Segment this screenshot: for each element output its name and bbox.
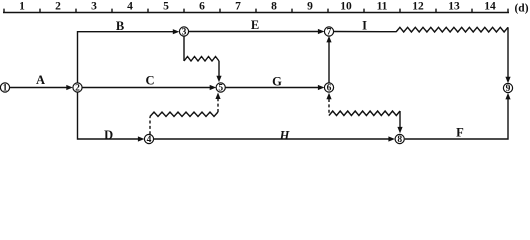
svg-text:1: 1 [19,1,25,13]
dummy 6->8 arrow into node 8 top [399,111,401,129]
svg-text:7: 7 [235,1,241,13]
time-scale ruler baseline [3,12,509,14]
dummy 6->8 free-float wavy line [329,111,400,116]
svg-text:5: 5 [163,1,169,13]
svg-text:D: D [104,128,113,142]
activity G arrow 5->6 [225,87,320,89]
activity I solid segment from node 7 [334,31,396,33]
dummy at node 6 dashed arrow pointing up into node 6 [328,99,330,116]
svg-text:C: C [145,74,154,88]
activity E arrow 3->7 [189,31,320,33]
svg-text:2: 2 [55,1,61,13]
svg-text:F: F [456,125,464,139]
activity B arrow 2->3 (up then right) [78,32,175,83]
activity C arrow 2->5 [82,87,211,89]
svg-text:6: 6 [327,84,332,94]
svg-text:(d): (d) [514,3,528,15]
svg-text:14: 14 [484,1,496,13]
svg-text:5: 5 [218,84,223,94]
svg-text:E: E [251,18,259,32]
svg-text:4: 4 [147,135,152,145]
svg-text:2: 2 [75,84,80,94]
node 4 [144,134,153,145]
node 6 [324,83,333,94]
dummy 3->5 free-float wavy line [184,57,219,62]
activity I drop into node 9 [507,27,509,78]
svg-text:10: 10 [340,1,352,13]
dummy 4->5 dashed arrow into node 5 bottom [217,98,219,113]
activity F arrow 8->9 (right then up) [405,98,508,139]
dummy 3->5 arrow into node 5 top [218,61,220,78]
dummy 4->5 dashed rise from node 4 [149,117,151,135]
node 8 [395,134,404,145]
dummy 3->5 vertical drop from node 3 [183,36,185,61]
ruler tick marks [4,9,508,13]
svg-text:B: B [116,19,124,33]
svg-text:9: 9 [307,1,313,13]
node 7 [324,27,333,38]
dummy arrow 6->7 vertical [328,41,330,83]
activity D arrow 2->4 (down then right) [78,92,140,139]
svg-text:8: 8 [397,135,402,145]
svg-text:8: 8 [271,1,277,13]
svg-text:7: 7 [327,28,332,38]
svg-text:6: 6 [199,1,205,13]
node 1 [0,83,9,94]
svg-text:3: 3 [182,28,187,38]
svg-text:I: I [362,19,367,33]
activity I free-float wavy line [396,27,508,32]
svg-text:1: 1 [3,84,8,94]
svg-text:11: 11 [377,1,388,13]
svg-text:4: 4 [127,1,133,13]
node 5 [216,83,225,94]
dummy 4->5 free-float wavy line [150,112,218,117]
svg-text:9: 9 [506,84,511,94]
svg-text:13: 13 [448,1,460,13]
svg-text:A: A [36,73,45,87]
node 9 [503,83,512,94]
ruler numbers 1-14 [19,1,496,13]
node 3 [179,27,188,38]
activity A arrow 1->2 [9,87,68,89]
svg-text:3: 3 [91,1,97,13]
svg-text:H: H [279,128,291,142]
svg-text:G: G [272,74,282,88]
node 2 [73,83,82,94]
activity H arrow 4->8 [154,138,391,140]
svg-text:12: 12 [412,1,424,13]
